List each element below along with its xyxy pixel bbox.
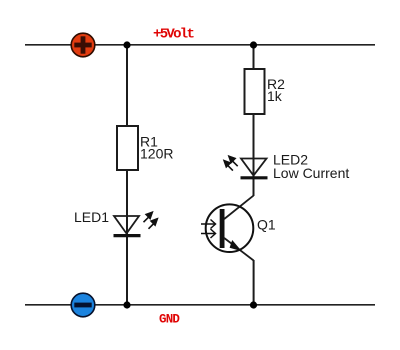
wire: collector diagonal to LED2 bbox=[224, 196, 253, 219]
LED2 light arrows bbox=[224, 156, 238, 170]
resistor R2 bbox=[245, 69, 265, 114]
label R2 1k bbox=[267, 76, 285, 104]
junction node +5V/R2 bbox=[250, 41, 257, 48]
label LED2 Low Current bbox=[273, 151, 349, 181]
wire: R1 bottom to GND through LED1 bbox=[126, 170, 128, 305]
svg-text:GND: GND bbox=[159, 313, 180, 327]
GND rail wire bbox=[25, 304, 375, 306]
svg-text:+5Volt: +5Volt bbox=[153, 27, 195, 43]
+5V rail wire bbox=[25, 44, 375, 46]
svg-text:1k: 1k bbox=[267, 88, 283, 104]
wire: emitter to GND bbox=[253, 260, 255, 305]
svg-text:Low Current: Low Current bbox=[273, 165, 349, 181]
wire: R2 bottom through LED2 bbox=[253, 114, 255, 196]
junction node GND/Q1 bbox=[250, 301, 257, 308]
LED1 bbox=[114, 216, 141, 236]
transistor Q1 bbox=[206, 204, 254, 260]
svg-text:LED1: LED1 bbox=[74, 209, 109, 225]
resistor R1 bbox=[117, 126, 138, 170]
label R1 120R bbox=[140, 133, 173, 161]
LED1 light arrows bbox=[144, 212, 158, 229]
LED2 bbox=[241, 159, 268, 178]
battery negative terminal bbox=[71, 293, 95, 317]
svg-text:120R: 120R bbox=[140, 146, 173, 162]
junction node +5V/R1 bbox=[123, 41, 130, 48]
svg-text:Q1: Q1 bbox=[257, 216, 276, 232]
Q1 light arrows bbox=[201, 220, 216, 239]
wire: left branch vertical bbox=[126, 45, 128, 126]
junction node GND/LED1 bbox=[123, 301, 130, 308]
wire: right branch from +5V to R2 bbox=[253, 45, 255, 69]
battery positive terminal bbox=[71, 33, 95, 57]
